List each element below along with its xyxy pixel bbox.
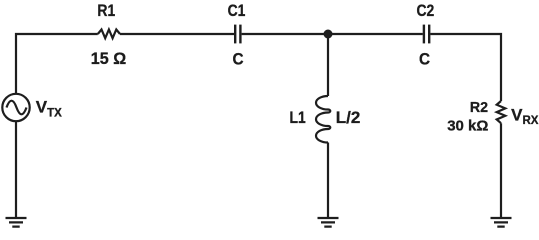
svg-text:C: C <box>419 50 430 69</box>
svg-text:L/2: L/2 <box>336 108 361 127</box>
svg-text:L1: L1 <box>289 109 306 128</box>
svg-text:C1: C1 <box>228 2 246 21</box>
svg-text:C2: C2 <box>416 2 434 21</box>
svg-text:R2: R2 <box>470 99 488 115</box>
svg-text:C: C <box>232 50 243 69</box>
svg-text:R1: R1 <box>97 2 115 21</box>
svg-text:30 kΩ: 30 kΩ <box>447 117 488 134</box>
svg-text:15 Ω: 15 Ω <box>91 48 126 67</box>
